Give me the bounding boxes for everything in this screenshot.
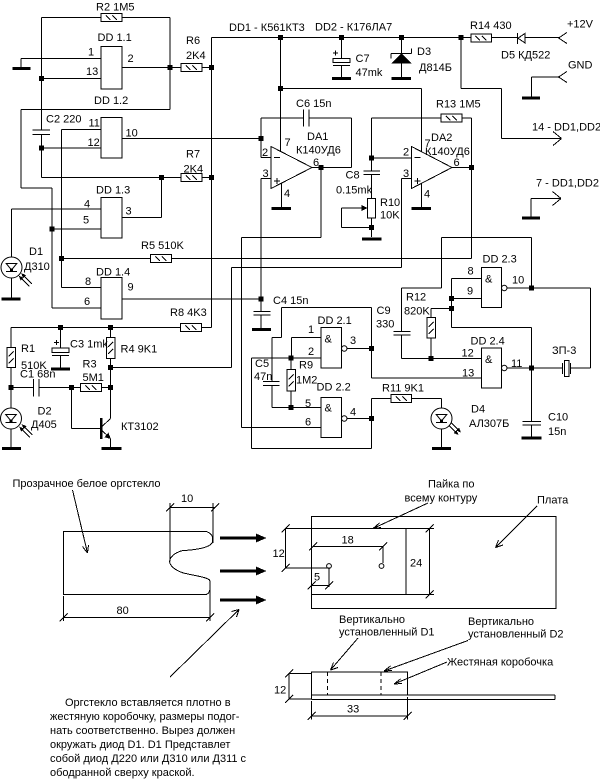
dimension 18: [309, 535, 387, 564]
svg-text:1M2: 1M2: [296, 375, 317, 387]
svg-text:R10: R10: [380, 197, 400, 209]
hole D2: [379, 564, 384, 569]
wire vertical x211.5 rail drop: [211, 38, 213, 328]
photodiode D1: [1, 209, 50, 298]
node junction 371.5,348.5: [369, 346, 374, 351]
svg-text:12: 12: [462, 348, 474, 360]
diode D5: [492, 33, 559, 62]
svg-text:C3 1mk: C3 1mk: [70, 339, 108, 351]
node junction 161.5,177.5: [159, 175, 164, 180]
node junction 211.5,177.5: [209, 175, 214, 180]
svg-text:R12: R12: [406, 292, 426, 304]
svg-text:Вертикально: Вертикально: [339, 614, 405, 626]
dimension 80: [60, 581, 215, 622]
svg-text:R3: R3: [83, 359, 97, 371]
wire pin8/9 bus to DD2.4 out: [452, 328, 532, 369]
wire R5 left: [62, 258, 151, 260]
resistor R13: [372, 99, 481, 123]
svg-text:D4: D4: [471, 404, 485, 416]
resistor R9: [287, 358, 318, 408]
wire R2 left to DD1.1 loop: [42, 17, 102, 19]
node junction 280.5,38: [278, 35, 283, 40]
dashed D1 in box: [327, 672, 329, 695]
ground D2: [2, 447, 21, 450]
wire pin3 DD1.3: [122, 178, 162, 218]
svg-text:0.15mk: 0.15mk: [336, 185, 373, 197]
wire C2 bottom to corner: [41, 135, 43, 178]
node junction 531.5,368: [529, 366, 534, 371]
svg-text:Д405: Д405: [31, 419, 57, 431]
wire pin4 DD1.3 from D1: [12, 208, 102, 210]
output bubble pin4 DD2.2: [342, 416, 348, 422]
wire R6 right: [202, 67, 212, 69]
svg-text:2: 2: [308, 346, 314, 358]
op-amp DA1: [261, 131, 341, 200]
IC DD2.1: [308, 315, 356, 368]
zener D3: [391, 38, 452, 78]
leader tin box: [394, 662, 447, 684]
svg-text:11: 11: [89, 118, 100, 130]
svg-text:8: 8: [468, 266, 474, 278]
svg-text:12: 12: [88, 137, 100, 149]
connector GND: [532, 60, 593, 97]
svg-text:80: 80: [117, 605, 129, 617]
svg-text:нать соответственно. Вырез дол: нать соответственно. Вырез должен: [50, 725, 235, 737]
wire R13 right down to DA2 out: [471, 118, 473, 168]
transistor Q1 KT3102: [101, 388, 158, 448]
wire pin3 DD2.1: [347, 348, 372, 350]
resistor R1: [7, 328, 48, 388]
wire DA1 pin7: [280, 38, 282, 153]
resistor R12: [404, 292, 452, 359]
node junction 60.5,327.5: [58, 325, 63, 330]
wire vertical x52 to pin6: [51, 188, 53, 308]
svg-text:820K: 820K: [404, 306, 430, 318]
wire R4 node down: [110, 368, 112, 388]
svg-text:всему контуру: всему контуру: [405, 493, 478, 505]
output bubble pin10 DD2.3: [502, 285, 508, 291]
led D4: [431, 399, 509, 448]
svg-text:R4 9K1: R4 9K1: [121, 344, 158, 356]
svg-text:15n: 15n: [548, 426, 566, 438]
svg-text:1: 1: [308, 324, 314, 336]
ground 7-DD1,DD2: [522, 217, 540, 220]
svg-text:R7: R7: [186, 149, 200, 161]
svg-text:24: 24: [410, 558, 422, 570]
svg-text:2: 2: [262, 147, 268, 159]
wire pin6 DD2.2: [242, 427, 322, 429]
node junction 451.5,298.5: [449, 296, 454, 301]
svg-text:10: 10: [512, 275, 524, 287]
wire feedback top DD2.1 to C5: [272, 308, 372, 349]
svg-text:4: 4: [424, 189, 430, 201]
light arrow 1: [220, 534, 267, 543]
svg-text:6: 6: [84, 296, 90, 308]
IC DD2.2: [305, 382, 356, 438]
leader soldering: [373, 503, 428, 529]
svg-text:Д310: Д310: [24, 261, 50, 273]
svg-text:GND: GND: [568, 60, 593, 72]
svg-text:Жестяная коробочка: Жестяная коробочка: [447, 657, 554, 669]
wire y109.5 left run: [21, 109, 170, 111]
svg-text:9: 9: [128, 282, 134, 294]
wire pin8 DD1.4: [62, 287, 102, 289]
wire pin10 DD1.2: [122, 138, 261, 140]
svg-text:К140УД6: К140УД6: [296, 145, 341, 157]
node junction 11,387.5: [9, 385, 14, 390]
svg-text:К140УД6: К140УД6: [425, 146, 470, 158]
svg-text:окружать диод D1. D1 Представ: окружать диод D1. D1 Представлет: [50, 739, 230, 751]
hole D1: [327, 564, 332, 569]
leader vertical D2: [384, 641, 468, 672]
svg-text:DD 2.3: DD 2.3: [483, 254, 517, 266]
ground GND terminal: [522, 97, 540, 100]
svg-text:C4 15n: C4 15n: [273, 295, 308, 307]
IC DD1.2: [88, 95, 138, 158]
node junction 261,299: [259, 297, 264, 302]
svg-text:10: 10: [126, 128, 138, 140]
svg-text:3: 3: [126, 206, 132, 218]
capacitor C4: [254, 295, 309, 328]
wire pin3 to pin13 DD2.4: [372, 349, 482, 379]
node junction 41.5,78.5: [39, 76, 44, 81]
wire R8 right corner: [202, 327, 212, 329]
wire DA2 pin3 drop: [401, 179, 403, 268]
output bubble pin11 DD2.4: [502, 365, 508, 371]
node junction 371.5,227.5: [369, 225, 374, 230]
plexiglass strip side view: [312, 695, 556, 700]
svg-text:5: 5: [83, 215, 89, 227]
svg-text:R5 510K: R5 510K: [141, 240, 184, 252]
svg-text:12: 12: [273, 548, 285, 560]
wire pin8 DD2.3: [452, 279, 482, 328]
svg-text:Плата: Плата: [537, 495, 569, 507]
svg-text:D1: D1: [29, 246, 43, 258]
svg-text:ЗП-3: ЗП-3: [552, 345, 576, 357]
node junction 371.5,418.5: [369, 416, 374, 421]
wire vertical x231.5: [231, 268, 233, 368]
node junction 451.5,308.5: [449, 306, 454, 311]
capacitor C3 electrolytic: [52, 328, 108, 368]
capacitor C5: [254, 338, 321, 408]
wire C8 riser: [371, 118, 373, 158]
node junction 461,38: [459, 35, 464, 40]
wire R2 right: [122, 17, 170, 19]
D2 arrows (light in): [19, 424, 32, 437]
node junction 211.5,67.5: [209, 65, 214, 70]
svg-text:DD2 - К176ЛА7: DD2 - К176ЛА7: [315, 22, 392, 34]
resistor R11: [372, 383, 442, 419]
svg-text:Оргстекло вставляется плотно в: Оргстекло вставляется плотно в: [65, 697, 231, 709]
node junction 371.5,158: [369, 156, 374, 161]
wire pin2 DD1.1 to R6: [122, 67, 181, 69]
resistor R14: [470, 20, 512, 42]
node junction 401.5,38: [399, 35, 404, 40]
wire DA1 pin4 + ground: [272, 183, 292, 209]
node junction 280.5,88.5: [278, 86, 283, 91]
svg-text:47mk: 47mk: [356, 67, 383, 79]
svg-text:3: 3: [350, 335, 356, 347]
node junction 291,358: [289, 356, 294, 361]
label vertical D2: [468, 616, 564, 641]
svg-text:DD 1.3: DD 1.3: [96, 185, 130, 197]
node junction 52,229: [50, 227, 55, 232]
svg-text:DD 2.4: DD 2.4: [471, 336, 505, 348]
wire pin10 DD2.3: [507, 287, 591, 289]
wire pin11 DD2.4: [507, 367, 532, 369]
svg-text:2K4: 2K4: [186, 50, 206, 62]
D1 arrows (light in): [19, 273, 32, 286]
photodiode D2: [1, 388, 57, 448]
svg-text:КТ3102: КТ3102: [121, 421, 159, 433]
capacitor C6 feedback: [261, 98, 352, 168]
svg-text:&: &: [485, 354, 493, 366]
svg-text:7 - DD1,DD2: 7 - DD1,DD2: [536, 178, 599, 190]
svg-text:DD 2.2: DD 2.2: [317, 382, 351, 394]
svg-text:C6 15n: C6 15n: [296, 98, 331, 110]
svg-text:R2 1M5: R2 1M5: [96, 2, 135, 14]
dimension 10: [166, 493, 219, 562]
svg-text:1: 1: [88, 47, 94, 59]
ground Q1 emitter: [102, 447, 122, 450]
wire DA1 output: [312, 167, 352, 169]
svg-text:R6: R6: [186, 35, 200, 47]
IC DD1.3: [83, 185, 132, 239]
dimension 33: [308, 697, 412, 720]
ground D1: [2, 298, 21, 301]
node junction 110.5,387.5: [108, 385, 113, 390]
svg-text:8: 8: [85, 276, 91, 288]
wire R7 right: [202, 177, 212, 179]
svg-text:C5: C5: [255, 358, 269, 370]
wire pin4 DD2.2: [347, 418, 372, 420]
node junction 291,407.5: [289, 405, 294, 410]
wire pin9 DD2.3: [452, 298, 482, 300]
node junction 471.5,167.5: [469, 165, 474, 170]
svg-text:10K: 10K: [380, 210, 400, 222]
svg-text:2K4: 2K4: [184, 164, 204, 176]
ground R10: [362, 238, 382, 241]
connector 7-DD1,DD2: [531, 178, 599, 217]
label vertical D1: [339, 614, 435, 639]
svg-text:R9: R9: [299, 360, 313, 372]
svg-text:C8: C8: [346, 170, 360, 182]
capacitor C9: [376, 288, 482, 359]
svg-text:DD1 - К561КТ3: DD1 - К561КТ3: [229, 22, 305, 34]
capacitor C8: [336, 158, 380, 199]
svg-text:DA1: DA1: [307, 131, 328, 143]
svg-text:5: 5: [305, 398, 311, 410]
svg-text:R13 1M5: R13 1M5: [436, 99, 481, 111]
node junction 531.5,288: [529, 286, 534, 291]
plexiglass plate outline: [64, 532, 213, 595]
node junction 321,167.5: [319, 165, 324, 170]
dimension 24: [406, 525, 434, 599]
svg-text:установленный D2: установленный D2: [468, 629, 564, 641]
node junction 110.5,367.5: [108, 365, 113, 370]
wire vertical x61.5 pin11 to pin8: [61, 130, 63, 288]
svg-text:DD 1.2: DD 1.2: [94, 95, 128, 107]
resistor R8: [170, 307, 207, 332]
resistor R3: [72, 359, 111, 392]
svg-text:9: 9: [467, 286, 473, 298]
svg-text:14 - DD1,DD2: 14 - DD1,DD2: [532, 122, 600, 134]
svg-text:6: 6: [305, 417, 311, 429]
svg-text:330: 330: [376, 319, 394, 331]
node junction 170,67.5: [168, 65, 173, 70]
dashed D2 in box: [380, 672, 382, 695]
ground D3: [392, 77, 412, 80]
wire pin4 feedback to pin2: [252, 358, 372, 449]
capacitor C1: [11, 369, 72, 397]
wire pin6 DD1.4: [52, 307, 101, 309]
power rail +12V y38: [212, 37, 472, 39]
svg-text:R11 9K1: R11 9K1: [382, 383, 424, 395]
capacitor C10: [523, 368, 569, 438]
resistor R5: [141, 240, 184, 263]
wire pin1 DD2.1: [292, 338, 322, 359]
svg-text:C1 68n: C1 68n: [20, 369, 55, 381]
wire R8 left run: [11, 327, 181, 329]
svg-text:12: 12: [274, 685, 286, 697]
wire pin11 DD1.2: [62, 129, 102, 131]
svg-text:R14 430: R14 430: [470, 20, 512, 32]
svg-text:3: 3: [263, 168, 269, 180]
leader paragraph to plate: [170, 610, 239, 678]
wire y188: [21, 187, 52, 189]
leader vertical D1: [331, 638, 359, 670]
leader board: [496, 506, 538, 548]
svg-text:13: 13: [462, 368, 474, 380]
output bubble pin3 DD2.1: [342, 346, 348, 352]
resistor R2: [96, 2, 135, 22]
node junction 341.5,38: [339, 35, 344, 40]
wire y267.5 to DA2 pin3: [232, 267, 402, 269]
svg-text:10: 10: [181, 493, 193, 505]
svg-text:C10: C10: [548, 412, 568, 424]
svg-text:D3: D3: [417, 46, 431, 58]
node junction 61.5,258.5: [59, 256, 64, 261]
svg-text:7: 7: [285, 137, 291, 149]
svg-text:D5 КД522: D5 КД522: [501, 50, 550, 62]
wire DA2 pin4 + ground: [412, 183, 432, 209]
wire DA1 pin3 down to C4 node: [260, 179, 262, 300]
svg-text:АЛ307Б: АЛ307Б: [469, 418, 509, 430]
dimension 12 mid: [273, 525, 331, 573]
svg-text:R1: R1: [21, 343, 35, 355]
resistor R7: [181, 149, 203, 182]
wire +12V to pin14 feed: [461, 38, 562, 139]
resistor R6: [181, 35, 206, 72]
svg-text:5M1: 5M1: [83, 372, 104, 384]
wire vertical x170 R2 to pin2 node: [169, 18, 171, 110]
svg-text:DD 2.1: DD 2.1: [318, 315, 352, 327]
wire base drop from C1/R3 node: [72, 388, 101, 429]
wire pin9 DD1.4: [122, 298, 261, 300]
node junction 261,138.5 (DA1 pin2 node): [259, 136, 264, 141]
wire pin12 DD1.2: [42, 147, 102, 149]
ground pin1 DD1.1: [13, 59, 102, 69]
svg-text:47n: 47n: [254, 371, 272, 383]
wire y177.5 to R7: [42, 177, 182, 179]
ground C10: [522, 437, 542, 440]
svg-text:C7: C7: [356, 53, 370, 65]
svg-text:Д814Б: Д814Б: [419, 62, 452, 74]
svg-text:Прозрачное белое оргстекло: Прозрачное белое оргстекло: [13, 478, 161, 490]
ground C7: [332, 77, 351, 80]
node junction 110.5,327.5: [108, 325, 113, 330]
wire pin10 top loop: [402, 238, 532, 289]
board rectangle: [312, 517, 557, 609]
svg-text:C2 220: C2 220: [46, 114, 81, 126]
svg-text:C9: C9: [377, 305, 391, 317]
wire pin2 DD2.1: [252, 357, 322, 359]
tin box side view: [312, 672, 408, 695]
IC DD2.3: [467, 254, 524, 308]
node junction 71.5,387.5: [69, 385, 74, 390]
connector +12V: [559, 19, 594, 44]
svg-text:DA2: DA2: [431, 132, 452, 144]
svg-text:ободранной сверху краской.: ободранной сверху краской.: [50, 767, 195, 779]
D4 arrows (light out): [449, 423, 461, 435]
wire DA2 output: [452, 167, 472, 169]
svg-text:2: 2: [128, 53, 134, 65]
IC DD1.4: [84, 267, 134, 320]
dimension 5: [308, 569, 334, 590]
wire pin5 DD1.3: [52, 228, 101, 230]
op-amp DA2: [372, 132, 470, 201]
piezo ZP-3: [532, 345, 591, 377]
svg-text:D2: D2: [38, 406, 52, 418]
svg-text:Пайка по: Пайка по: [428, 479, 474, 491]
wire DA2 out down to R5 wire: [471, 168, 473, 259]
node junction 431,358.5: [429, 356, 434, 361]
IC DD1.1: [86, 32, 134, 89]
svg-text:18: 18: [342, 535, 354, 547]
resistor R4: [106, 328, 157, 368]
svg-text:+12V: +12V: [567, 19, 594, 31]
svg-text:13: 13: [86, 66, 98, 78]
svg-text:установленный D1: установленный D1: [339, 627, 435, 639]
wire pin13 DD1.1: [42, 78, 102, 80]
svg-text:&: &: [325, 334, 333, 346]
svg-text:DD 1.4: DD 1.4: [96, 267, 130, 279]
label soldering: [405, 479, 478, 505]
IC DD2.4: [462, 336, 523, 389]
potentiometer R10: [342, 197, 401, 237]
wire R4 node to DA2 pin3 riser: [111, 367, 232, 369]
svg-text:&: &: [325, 403, 333, 415]
capacitor C2: [33, 114, 82, 135]
svg-text:Вертикально: Вертикально: [468, 616, 534, 628]
note paragraph: [50, 697, 247, 779]
svg-text:DD 1.1: DD 1.1: [98, 32, 132, 44]
svg-text:жестяную коробочку, размеры п: жестяную коробочку, размеры подог-: [50, 711, 240, 723]
svg-text:33: 33: [347, 704, 359, 716]
node junction 41.5,148: [39, 146, 44, 151]
svg-text:4: 4: [284, 188, 290, 200]
light arrow 3: [220, 596, 267, 605]
dimension 12 bottom: [274, 670, 312, 704]
svg-text:4: 4: [350, 407, 356, 419]
wire vertical x21: [20, 110, 22, 189]
wire vertical x41.5 R2-left down to C2: [41, 18, 43, 131]
wire DA1 out down to DD2.2 pin6: [242, 168, 322, 428]
leader plexiglass: [73, 490, 89, 553]
ground C4: [252, 328, 271, 331]
ground C3: [51, 368, 70, 371]
wire pin7 rail to DA2: [281, 89, 422, 153]
